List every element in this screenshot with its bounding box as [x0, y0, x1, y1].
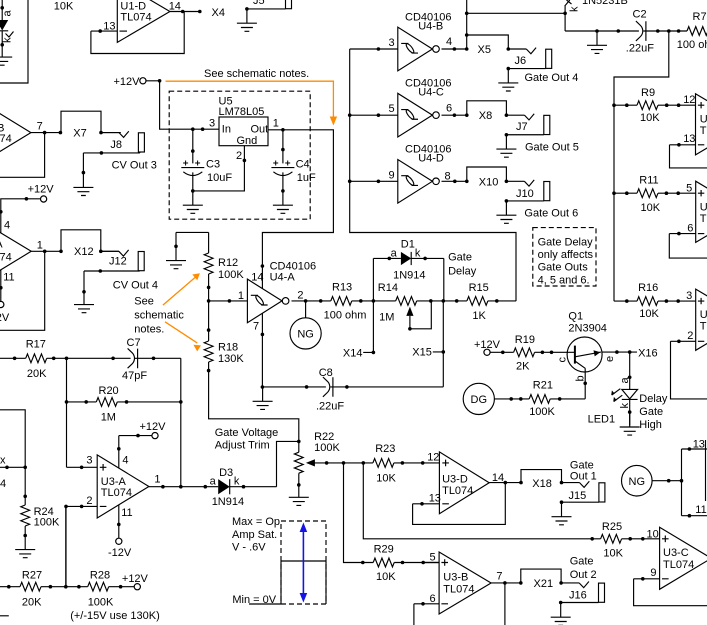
svg-text:R19: R19 — [515, 334, 535, 346]
wire pin6 — [669, 233, 695, 235]
wire R27/R28 row — [0, 506, 135, 586]
svg-text:R7: R7 — [693, 11, 707, 23]
wire R16 row — [614, 300, 696, 302]
svg-text:100K: 100K — [529, 406, 555, 418]
jack J8 — [101, 131, 144, 152]
svg-text:J10: J10 — [516, 188, 534, 200]
svg-text:k: k — [2, 37, 14, 43]
svg-text:1: 1 — [154, 474, 160, 486]
svg-text:Gate Voltage: Gate Voltage — [215, 427, 279, 439]
ground — [289, 483, 309, 505]
svg-text:5: 5 — [389, 103, 395, 115]
svg-text:C3: C3 — [206, 158, 220, 170]
svg-text:only affects: only affects — [538, 249, 594, 261]
capacitor C8 — [263, 386, 444, 388]
svg-text:10K: 10K — [603, 547, 623, 559]
wire U4-D output / X10 — [442, 167, 507, 181]
wire wiper node to R25 — [363, 463, 659, 539]
op-amp U3-A — [97, 455, 149, 518]
ground — [253, 387, 273, 409]
wire wiper node to R29 — [344, 463, 440, 563]
wire bus to comparators — [614, 31, 669, 301]
svg-text:b: b — [575, 375, 587, 381]
svg-text:3: 3 — [86, 454, 92, 466]
svg-text:4, 5 and 6.: 4, 5 and 6. — [538, 274, 590, 286]
svg-text:10K: 10K — [639, 308, 659, 320]
svg-text:X15: X15 — [412, 347, 432, 359]
svg-text:4: 4 — [4, 220, 10, 232]
potentiometer R14 — [396, 297, 417, 306]
svg-text:-12V: -12V — [0, 312, 10, 324]
svg-text:47pF: 47pF — [122, 370, 147, 382]
svg-text:10uF: 10uF — [207, 172, 232, 184]
svg-text:LM78L05: LM78L05 — [219, 106, 265, 118]
ground — [496, 135, 516, 157]
op-amp U2-A — [696, 289, 707, 350]
svg-text:13: 13 — [683, 133, 695, 145]
svg-text:2K: 2K — [516, 361, 530, 373]
wire pin6 — [414, 604, 439, 625]
svg-text:U4-A: U4-A — [270, 271, 296, 283]
terminal — [152, 433, 158, 439]
svg-text:R15: R15 — [469, 282, 489, 294]
inverter U4-B — [398, 27, 440, 71]
svg-text:X8: X8 — [479, 110, 492, 122]
LED1 — [629, 352, 631, 389]
svg-text:Gate Out 5: Gate Out 5 — [525, 141, 579, 153]
module box border — [0, 0, 28, 83]
resistor R15 — [467, 297, 488, 306]
svg-text:Q1: Q1 — [568, 311, 583, 323]
svg-text:Gate: Gate — [639, 406, 663, 418]
svg-text:1N914: 1N914 — [212, 496, 244, 508]
svg-text:4: 4 — [446, 36, 452, 48]
svg-text:C2: C2 — [633, 9, 647, 21]
svg-text:12: 12 — [683, 94, 695, 106]
svg-text:.22uF: .22uF — [316, 401, 344, 413]
orange arrows — [163, 277, 197, 343]
node X15 — [433, 301, 444, 387]
resistor R24 — [0, 410, 25, 537]
svg-text:NG: NG — [629, 476, 646, 488]
resistor R25 — [601, 534, 622, 543]
svg-text:a: a — [2, 10, 14, 17]
node X14 — [363, 301, 373, 353]
svg-text:100K: 100K — [88, 597, 114, 609]
svg-text:8: 8 — [445, 170, 451, 182]
svg-text:a: a — [619, 377, 631, 384]
svg-text:11: 11 — [695, 504, 706, 516]
svg-text:R20: R20 — [99, 385, 119, 397]
ground — [551, 603, 571, 625]
svg-text:U2-B: U2-B — [700, 201, 707, 213]
svg-text:10: 10 — [647, 529, 659, 541]
svg-text:In: In — [222, 124, 231, 136]
diode D3 — [218, 479, 230, 494]
svg-text:Delay: Delay — [639, 393, 668, 405]
wire pin5 — [423, 562, 439, 564]
ground — [587, 31, 607, 53]
-12V terminal — [0, 270, 2, 302]
svg-text:Gate: Gate — [570, 556, 594, 568]
svg-text:1: 1 — [273, 117, 279, 129]
svg-text:2: 2 — [236, 150, 242, 162]
svg-text:See: See — [134, 295, 154, 307]
svg-text:+12V: +12V — [114, 76, 141, 88]
node NG — [305, 301, 307, 318]
svg-text:See schematic notes.: See schematic notes. — [204, 68, 309, 80]
wire pin2 — [671, 340, 696, 342]
op-amp U2-D — [696, 94, 707, 155]
svg-text:Max = Op: Max = Op — [232, 516, 280, 528]
resistor R21 — [529, 395, 550, 404]
node NG — [622, 465, 653, 496]
op-amp U3-D — [439, 452, 489, 514]
svg-text:C7: C7 — [127, 337, 141, 349]
svg-text:C4: C4 — [296, 158, 310, 170]
svg-text:DG: DG — [471, 394, 488, 406]
svg-text:Gate: Gate — [570, 459, 594, 471]
terminal — [0, 301, 4, 307]
wire U5 gnd pin — [193, 146, 245, 191]
svg-text:X21: X21 — [534, 578, 554, 590]
svg-text:Amp Sat.: Amp Sat. — [232, 529, 277, 541]
wire output X21 — [491, 569, 561, 625]
trimmer R22 — [298, 441, 300, 485]
wire U4-C output / X8 — [442, 101, 507, 115]
svg-text:a: a — [210, 475, 217, 487]
capacitor C2 — [636, 21, 646, 41]
jack J16 — [561, 582, 604, 603]
svg-text:6: 6 — [430, 593, 436, 605]
node DG — [463, 383, 494, 414]
svg-text:High: High — [639, 419, 662, 431]
svg-text:R21: R21 — [533, 380, 553, 392]
wire feedback U1-B — [0, 133, 45, 178]
wire output row / D3 — [149, 441, 299, 486]
wire feedback — [670, 145, 707, 168]
wire input bus — [350, 49, 516, 301]
wire output row — [292, 300, 517, 302]
svg-text:R23: R23 — [375, 443, 395, 455]
wire output X12 — [31, 250, 119, 252]
inverter U4-A — [247, 279, 289, 323]
svg-text:7: 7 — [496, 571, 502, 583]
wire — [494, 398, 585, 400]
ground — [620, 413, 640, 435]
svg-text:X10: X10 — [479, 176, 499, 188]
svg-text:TL074: TL074 — [0, 252, 12, 264]
svg-text:c: c — [557, 357, 569, 363]
wire pin1 — [209, 300, 248, 302]
svg-text:R9: R9 — [641, 87, 655, 99]
svg-text:Adjust Trim: Adjust Trim — [215, 440, 270, 452]
wire U5 out to +5 rail — [262, 130, 333, 289]
svg-text:k: k — [234, 475, 240, 487]
svg-text:4: 4 — [122, 454, 128, 466]
svg-text:13: 13 — [429, 493, 441, 505]
svg-text:10K: 10K — [641, 202, 661, 214]
svg-text:C8: C8 — [319, 367, 333, 379]
svg-text:D3: D3 — [219, 467, 233, 479]
resistor R27 — [20, 582, 41, 591]
svg-text:Gnd: Gnd — [237, 135, 258, 147]
svg-text:J15: J15 — [569, 490, 587, 502]
wire feedback U1-A — [0, 251, 45, 330]
resistor R16 — [637, 297, 658, 306]
+12V pin4 — [119, 436, 152, 468]
wire R12 top loop — [176, 232, 209, 253]
svg-text:U4-C: U4-C — [418, 87, 444, 99]
svg-text:notes.: notes. — [134, 323, 164, 335]
inverter U4-D — [398, 160, 440, 204]
resistor R20 — [96, 398, 117, 407]
capacitor C7 — [128, 348, 138, 368]
svg-text:2: 2 — [687, 330, 693, 342]
ground — [496, 201, 516, 223]
wire feedback U1-D — [91, 12, 184, 54]
ground — [0, 43, 12, 65]
svg-text:1M: 1M — [101, 412, 116, 424]
wire R17 row — [0, 358, 181, 486]
node — [0, 6, 4, 10]
wire top rail — [565, 30, 687, 32]
jack J7 — [506, 114, 549, 135]
ground — [183, 191, 203, 213]
regulator U5 LM78L05 — [219, 117, 268, 146]
svg-text:2: 2 — [297, 289, 303, 301]
svg-text:14: 14 — [169, 0, 181, 12]
terminal — [41, 196, 47, 202]
wire pin13 — [91, 30, 117, 32]
svg-text:Out 2: Out 2 — [570, 569, 597, 581]
svg-text:R17: R17 — [26, 339, 46, 351]
svg-text:X18: X18 — [532, 478, 552, 490]
op-amp U1-B — [0, 102, 31, 164]
wire pin13 — [670, 144, 696, 146]
ground — [273, 191, 293, 213]
svg-text:x: x — [0, 455, 6, 467]
svg-text:e: e — [604, 356, 616, 362]
svg-text:100K: 100K — [314, 442, 340, 454]
-12V pin11 — [118, 505, 120, 538]
wire feedback — [669, 234, 707, 259]
svg-text:U3-B: U3-B — [443, 572, 468, 584]
capacitor C3 — [192, 129, 194, 191]
svg-text:TL074: TL074 — [700, 321, 707, 333]
op-amp U2-B — [696, 181, 707, 242]
ground — [237, 9, 257, 31]
svg-text:14: 14 — [251, 271, 263, 283]
svg-text:TL074: TL074 — [700, 213, 707, 225]
wire output X7 — [31, 132, 121, 134]
ground — [552, 502, 572, 524]
ground — [498, 69, 518, 91]
wire pin13 feedback — [413, 483, 506, 525]
resistor R23 — [373, 459, 394, 468]
svg-text:TL074: TL074 — [663, 559, 694, 571]
svg-text:R13: R13 — [332, 282, 352, 294]
svg-text:2: 2 — [86, 495, 92, 507]
svg-text:1uF: 1uF — [297, 172, 316, 184]
dashed outline — [169, 91, 310, 219]
op-amp U3-C — [660, 527, 707, 589]
resistor R29 — [373, 558, 394, 567]
svg-text:Gate Out 4: Gate Out 4 — [525, 72, 579, 84]
resistor R9 — [637, 101, 658, 110]
svg-text:100 ohm: 100 ohm — [677, 39, 707, 51]
svg-text:k: k — [569, 6, 581, 12]
svg-text:9: 9 — [650, 567, 656, 579]
wire feedback — [671, 341, 707, 399]
svg-text:6: 6 — [687, 223, 693, 235]
svg-text:TL074: TL074 — [101, 487, 132, 499]
jack J6 — [508, 48, 551, 69]
svg-text:k: k — [415, 248, 421, 260]
svg-text:12: 12 — [427, 452, 439, 464]
svg-text:Gate Out 6: Gate Out 6 — [524, 207, 578, 219]
diode D1 — [373, 258, 443, 301]
svg-text:R12: R12 — [218, 257, 238, 269]
svg-text:R29: R29 — [374, 543, 394, 555]
svg-text:U4-D: U4-D — [418, 153, 444, 165]
svg-text:U3-D: U3-D — [442, 474, 468, 486]
svg-text:10K: 10K — [376, 571, 396, 583]
node — [0, 43, 4, 47]
svg-text:1M: 1M — [379, 311, 394, 323]
svg-text:TL074: TL074 — [0, 133, 12, 145]
svg-text:J12: J12 — [109, 256, 127, 268]
svg-text:U1-D: U1-D — [120, 0, 146, 12]
svg-text:11: 11 — [121, 507, 132, 519]
svg-text:1K: 1K — [472, 310, 486, 322]
resistor R13 — [331, 297, 352, 306]
wire to U2-C pins — [652, 449, 707, 516]
svg-text:TL074: TL074 — [442, 485, 473, 497]
svg-text:X7: X7 — [73, 127, 86, 139]
svg-text:-12V: -12V — [108, 547, 132, 559]
svg-text:1N914: 1N914 — [393, 270, 425, 282]
svg-text:+12V: +12V — [28, 184, 55, 196]
resistor R17 — [26, 354, 47, 363]
svg-text:NG: NG — [297, 329, 314, 341]
svg-text:3: 3 — [686, 290, 692, 302]
wire pin3 — [67, 466, 98, 468]
svg-text:3: 3 — [209, 117, 215, 129]
svg-text:X4: X4 — [212, 7, 225, 19]
resistor R11 — [637, 189, 658, 198]
terminal — [140, 78, 146, 84]
svg-text:J7: J7 — [516, 121, 528, 133]
jack J15 — [562, 481, 605, 502]
svg-text:X12: X12 — [74, 246, 94, 258]
wire — [490, 351, 567, 353]
op-amp U1-A — [0, 220, 31, 282]
terminal — [116, 538, 122, 544]
wire wiper row — [315, 462, 440, 464]
svg-text:13: 13 — [693, 439, 705, 451]
svg-text:Out 1: Out 1 — [570, 471, 597, 483]
svg-text:D1: D1 — [401, 239, 415, 251]
svg-text:X14: X14 — [343, 348, 363, 360]
wire U4-B output / X5 — [442, 0, 566, 49]
svg-text:Gate: Gate — [448, 251, 472, 263]
svg-text:3: 3 — [389, 37, 395, 49]
svg-text:X16: X16 — [638, 347, 658, 359]
svg-text:4: 4 — [0, 478, 6, 490]
svg-text:CV Out 3: CV Out 3 — [112, 160, 157, 172]
ground — [166, 246, 186, 268]
svg-text:J8: J8 — [110, 139, 122, 151]
wire output — [170, 11, 200, 13]
svg-text:schematic: schematic — [134, 309, 184, 321]
resistor R18 — [208, 301, 210, 341]
svg-text:R18: R18 — [218, 342, 238, 354]
wire — [146, 81, 219, 129]
svg-text:100K: 100K — [218, 269, 244, 281]
svg-text:11: 11 — [3, 272, 14, 284]
svg-text:R16: R16 — [638, 282, 658, 294]
wire emitter/X16 — [602, 351, 637, 353]
svg-text:1: 1 — [238, 290, 244, 302]
svg-text:J5: J5 — [253, 0, 265, 7]
resistor R19 — [514, 348, 535, 357]
svg-text:10K: 10K — [640, 112, 660, 124]
resistor R7 — [687, 27, 707, 36]
wire — [1, 31, 3, 45]
svg-text:J16: J16 — [569, 590, 587, 602]
wire output X18 — [489, 470, 561, 483]
svg-text:U1-A: U1-A — [0, 239, 3, 251]
svg-text:10K: 10K — [54, 0, 74, 12]
jack J12 — [101, 250, 144, 271]
svg-text:7: 7 — [253, 320, 259, 332]
svg-text:CV Out 4: CV Out 4 — [113, 280, 158, 292]
jack J10 — [506, 180, 549, 201]
wire — [1, 0, 3, 20]
svg-text:5: 5 — [430, 552, 436, 564]
note box gate delay — [533, 228, 596, 286]
transistor Q1 2N3904 — [567, 337, 602, 372]
op-amp U3-B — [439, 552, 491, 614]
wire R9 row — [614, 104, 696, 106]
svg-text:LED1: LED1 — [588, 414, 616, 426]
svg-text:100K: 100K — [34, 517, 60, 529]
svg-text:7: 7 — [37, 121, 43, 133]
svg-text:Out: Out — [251, 124, 269, 136]
svg-text:130K: 130K — [218, 353, 244, 365]
svg-text:U3-C: U3-C — [663, 547, 689, 559]
svg-text:R11: R11 — [639, 174, 658, 186]
svg-text:+12V: +12V — [122, 573, 149, 585]
wire pin9 feedback — [634, 579, 707, 606]
ground — [74, 290, 94, 312]
svg-text:10K: 10K — [376, 473, 396, 485]
svg-text:R27: R27 — [22, 570, 42, 582]
wire pin2 — [66, 506, 97, 586]
terminal — [484, 349, 490, 355]
svg-text:9: 9 — [389, 169, 395, 181]
svg-text:2N3904: 2N3904 — [568, 323, 607, 335]
svg-text:20K: 20K — [22, 597, 42, 609]
svg-text:20K: 20K — [27, 368, 47, 380]
svg-text:5: 5 — [686, 183, 692, 195]
wire pin7 to ground — [261, 313, 263, 387]
svg-text:6: 6 — [446, 102, 452, 114]
resistor R28 — [88, 582, 109, 591]
svg-text:R28: R28 — [90, 570, 110, 582]
svg-text:+12V: +12V — [140, 421, 167, 433]
